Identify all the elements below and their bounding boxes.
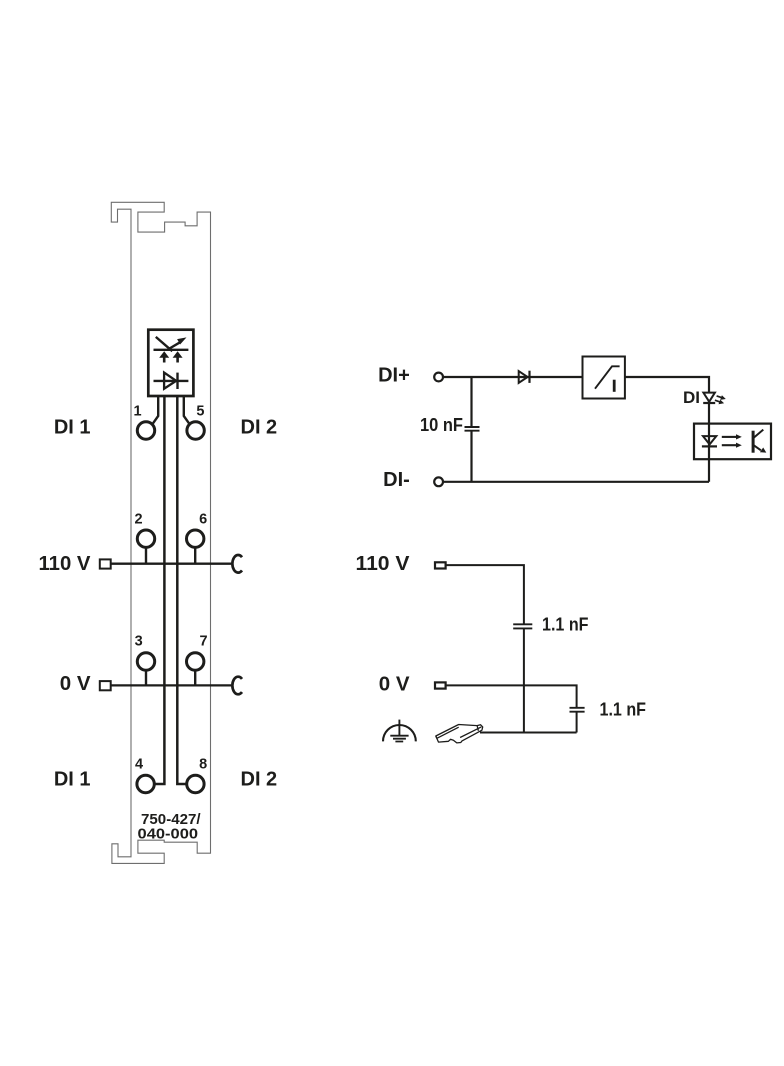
- optocoupler box U3: [694, 424, 771, 460]
- svg-text:DI 1: DI 1: [54, 769, 91, 791]
- pin 3: [137, 653, 154, 670]
- optocoupler arrow 2: [722, 444, 737, 446]
- pin 7: [187, 653, 204, 670]
- svg-text:DI 2: DI 2: [241, 417, 278, 439]
- wire stub box to pin 1: [152, 397, 158, 425]
- diode D1 cathode: [528, 371, 530, 383]
- svg-text:0 V: 0 V: [379, 672, 410, 695]
- wire bus right to pin 8: [177, 397, 186, 785]
- phototransistor base: [752, 431, 755, 453]
- LED DI triangle: [703, 393, 715, 402]
- current limiter I label: [613, 380, 616, 392]
- terminal DI+: [434, 373, 443, 382]
- DIN rail symbol: [436, 725, 483, 743]
- optocoupler arrow 1: [722, 436, 737, 438]
- LED DI light arrow 2: [715, 400, 720, 402]
- pin 2: [137, 530, 154, 547]
- pin 8: [187, 775, 204, 792]
- 0V rail wire: [112, 684, 232, 686]
- svg-text:DI 1: DI 1: [54, 417, 91, 439]
- phototransistor collector: [753, 430, 763, 439]
- wire 0 V to capacitor: [447, 685, 577, 707]
- svg-text:7: 7: [199, 633, 207, 649]
- terminal DI-: [434, 477, 443, 486]
- 0V rail hook: [232, 677, 242, 695]
- wire capacitor branch top: [470, 377, 472, 427]
- capacitor C1 1.1nF plates: [513, 624, 532, 628]
- diode D1 triangle: [519, 371, 528, 383]
- wire pin 3 stub: [145, 670, 147, 685]
- current limiter box U2: [583, 357, 625, 399]
- svg-text:1.1 nF: 1.1 nF: [600, 699, 647, 720]
- 0V rail terminal: [100, 681, 111, 690]
- wire pin 2 stub: [145, 547, 147, 563]
- svg-text:5: 5: [196, 404, 204, 420]
- diode symbol in box triangle: [164, 373, 176, 389]
- terminal 110 V right: [435, 562, 446, 568]
- pin 4: [137, 775, 154, 792]
- current limiter characteristic: [595, 366, 620, 388]
- wire 110 V to capacitor: [446, 565, 524, 624]
- up arrow right: [176, 357, 179, 363]
- svg-text:2: 2: [135, 512, 143, 528]
- svg-text:4: 4: [135, 756, 143, 772]
- function box U1: [148, 330, 193, 396]
- wire DI-: [443, 481, 709, 483]
- 110V rail wire: [112, 563, 232, 565]
- svg-text:1.1 nF: 1.1 nF: [542, 614, 589, 635]
- svg-text:DI+: DI+: [378, 364, 410, 386]
- ground symbol dome: [383, 725, 416, 741]
- 110V rail terminal: [100, 559, 111, 568]
- surge arrow head: [177, 337, 186, 344]
- module outline 750-427: [111, 202, 210, 863]
- capacitor 10nF plates: [465, 427, 480, 431]
- wire capacitor C1 to bus: [523, 628, 525, 732]
- svg-text:8: 8: [199, 756, 207, 772]
- wire box to LED branch: [625, 377, 709, 482]
- diode symbol in box cathode: [176, 373, 178, 389]
- wire pin 6 stub: [194, 547, 196, 563]
- LED DI cathode bar: [703, 402, 715, 404]
- svg-text:1: 1: [133, 404, 141, 420]
- diode symbol in box line: [154, 380, 189, 382]
- phototransistor emitter: [753, 445, 761, 451]
- pin 1: [137, 422, 154, 439]
- surge arrow symbol zigzag: [156, 337, 180, 351]
- optocoupler LED triangle: [703, 436, 716, 444]
- wire ground bus: [480, 732, 577, 734]
- surge arrow symbol bar: [154, 349, 189, 351]
- svg-text:0 V: 0 V: [60, 672, 91, 695]
- svg-text:6: 6: [199, 512, 207, 528]
- wire capacitor branch bottom: [470, 431, 472, 482]
- capacitor C2 1.1nF plates: [570, 708, 585, 712]
- pin 6: [187, 530, 204, 547]
- 110V rail hook: [232, 555, 242, 573]
- svg-text:110 V: 110 V: [356, 552, 410, 575]
- ground symbol bars: [390, 736, 408, 742]
- svg-text:DI 2: DI 2: [241, 769, 278, 791]
- wire pin 7 stub: [194, 670, 196, 685]
- terminal 0 V right: [435, 682, 446, 688]
- svg-text:110 V: 110 V: [39, 552, 91, 575]
- svg-text:DI: DI: [683, 388, 700, 407]
- svg-text:DI-: DI-: [383, 469, 410, 491]
- svg-text:3: 3: [135, 633, 143, 649]
- svg-text:10 nF: 10 nF: [420, 414, 463, 435]
- ground symbol stem: [398, 720, 400, 736]
- up arrow left: [163, 357, 166, 363]
- wire DI+: [443, 376, 583, 378]
- optocoupler LED bar: [702, 445, 717, 447]
- wire capacitor C2 to bus: [576, 712, 578, 733]
- LED DI light arrow 1: [717, 396, 722, 398]
- pin 5: [187, 422, 204, 439]
- wire bus left to pin 4: [154, 397, 164, 785]
- svg-text:040-000: 040-000: [138, 827, 199, 843]
- wire stub box to pin 5: [184, 397, 190, 425]
